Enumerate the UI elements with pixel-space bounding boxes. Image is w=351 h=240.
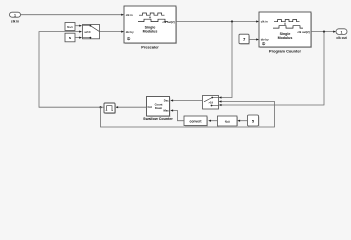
inport 1 "clk in" [10, 12, 21, 23]
wire switch1 out to Prescaler div by [100, 31, 125, 33]
switch SW2 (mirrored) [203, 96, 219, 110]
svg-text:1: 1 [14, 14, 16, 18]
wire convert out up to counter Max input [170, 109, 184, 120]
wire 7 to Program Counter div by [249, 38, 259, 40]
wire junction down to switch2 input 3 [219, 32, 324, 107]
outport 1 "clk out" [336, 29, 348, 40]
wire inport to Prescaler clk in [21, 14, 125, 16]
wire N+1 to switch1 in1 [75, 25, 82, 27]
wire f(u) out to convert input [208, 120, 217, 122]
svg-text:N+1: N+1 [67, 25, 73, 29]
svg-text:div by: div by [126, 30, 134, 34]
svg-text:clk out[2]: clk out[2] [163, 20, 175, 24]
node junction at pulse output [99, 106, 101, 108]
svg-text:Swallow Counter: Swallow Counter [143, 117, 173, 121]
subsystem U2 Program Counter [259, 12, 312, 54]
svg-text:Program Counter: Program Counter [269, 49, 301, 54]
node junction on prescaler output [231, 20, 233, 22]
svg-text:clk in: clk in [126, 13, 133, 17]
edge detect block (mirrored) [104, 103, 116, 114]
constant 5 [248, 115, 260, 127]
constant 7 [239, 34, 250, 45]
function block f(u) (mirrored) [218, 116, 239, 127]
svg-text:u2>0: u2>0 [85, 30, 92, 34]
wire Program Counter clk out to outport [311, 31, 336, 33]
wire counter Cnt out to pulse block input [115, 106, 146, 108]
svg-text:Prescaler: Prescaler [141, 44, 159, 49]
svg-text:clk in: clk in [261, 20, 268, 24]
constant N [65, 33, 75, 42]
switch SW1 [83, 25, 100, 39]
subsystem U1 Prescaler [124, 6, 177, 49]
svg-text:>19: >19 [209, 101, 214, 105]
wire junction down to switch2 input 1 [219, 22, 232, 99]
svg-text:div by: div by [261, 38, 269, 42]
svg-text:f(u): f(u) [225, 120, 230, 124]
svg-text:Cnt: Cnt [148, 105, 153, 109]
svg-text:Modulus: Modulus [278, 36, 293, 40]
svg-text:Modulus: Modulus [143, 30, 158, 34]
wire junction left and up to switch1 control in2 [39, 31, 101, 108]
svg-text:N: N [69, 36, 71, 40]
svg-text:1: 1 [341, 30, 343, 34]
node junction on program counter output [323, 31, 325, 33]
svg-text:clk out[2]: clk out[2] [298, 30, 310, 34]
wire 5 to f(u) input [237, 120, 247, 122]
svg-text:Max: Max [163, 109, 169, 113]
wire N to switch1 in3 [75, 37, 82, 39]
data type conversion block "convert" (mirrored) [184, 116, 208, 127]
svg-text:Down: Down [155, 106, 163, 110]
svg-text:clk in: clk in [11, 20, 19, 24]
counter U3 Swallow Counter (mirrored) [143, 97, 173, 121]
svg-text:Dec: Dec [164, 99, 169, 103]
svg-text:clk out: clk out [336, 36, 347, 40]
wire Prescaler clk out to Program Counter clk in [176, 20, 259, 22]
svg-text:convert: convert [190, 119, 203, 123]
wire junction down along bottom and up to switch2 input 2 [101, 100, 275, 127]
constant N+1 [65, 23, 75, 31]
wire pulse block out to junction [101, 106, 105, 108]
wire switch2 out to counter Dec input [170, 99, 202, 101]
